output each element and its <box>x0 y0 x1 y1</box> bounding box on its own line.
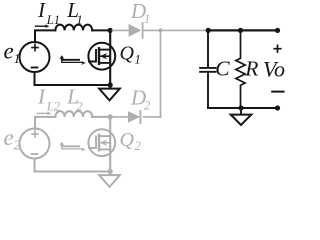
voltage source e2 <box>20 129 50 159</box>
node top right <box>275 28 280 33</box>
wire link D2 to D1 <box>160 30 162 117</box>
wire D2 cathode to link <box>144 116 161 118</box>
Q2 gate bar <box>89 137 96 149</box>
svg-text:1: 1 <box>76 13 82 27</box>
svg-text:C: C <box>215 57 230 81</box>
transistor Q1 <box>88 43 115 70</box>
svg-text:2: 2 <box>135 139 141 153</box>
ground phase 1 <box>109 85 111 89</box>
node drain junction <box>108 28 113 33</box>
gate signal arrow <box>61 58 63 63</box>
transistor Q2 <box>88 129 115 156</box>
current arrow I_L2 <box>38 112 49 114</box>
Q1 channel bar <box>98 48 100 64</box>
svg-text:1: 1 <box>135 53 141 67</box>
wire drain node 2 to D2 anode <box>113 116 129 118</box>
wire inductor to drain node <box>92 29 110 31</box>
diode D1 <box>129 24 142 37</box>
current arrow I_L1 <box>36 25 47 27</box>
Q1 source lead <box>99 62 110 64</box>
svg-text:2: 2 <box>144 99 150 113</box>
Q1 body arrow <box>100 56 110 63</box>
Q2 source lead <box>99 148 110 150</box>
svg-text:R: R <box>244 57 258 81</box>
svg-text:e: e <box>4 39 14 64</box>
wire e1 bottom to source rail <box>35 72 111 85</box>
wire inductor to drain node 2 <box>92 116 110 118</box>
Q2 drain lead <box>109 117 111 172</box>
wire e2 top to inductor <box>35 117 55 129</box>
wire output top rail <box>208 29 278 31</box>
node diode link junction <box>158 28 162 32</box>
resistor R <box>236 30 245 108</box>
svg-text:e: e <box>4 125 14 150</box>
inductor L2 <box>55 111 92 117</box>
plus sign inside e1 <box>32 45 38 51</box>
ground phase 2 <box>109 172 111 176</box>
node top middle <box>238 28 243 33</box>
plus sign inside e2 <box>32 131 38 137</box>
node source junction <box>108 82 113 87</box>
node drain junction 2 <box>108 114 113 119</box>
wire e2 bottom to source rail 2 <box>35 159 111 172</box>
voltage source e1 <box>20 42 50 72</box>
svg-text:Q: Q <box>120 129 135 151</box>
minus sign inside e1 <box>32 67 38 69</box>
ground output <box>240 108 242 115</box>
Q2 channel bar <box>98 135 100 151</box>
node top left <box>206 28 211 33</box>
wire output bottom rail <box>208 107 278 109</box>
capacitor C <box>207 30 209 67</box>
svg-text:I: I <box>37 85 46 109</box>
svg-text:2: 2 <box>76 100 82 114</box>
wire D1 cathode to output node <box>144 29 208 31</box>
node bottom right <box>275 105 280 110</box>
minus sign inside e2 <box>32 153 38 155</box>
svg-text:I: I <box>37 0 46 22</box>
wire e1 top to inductor <box>35 30 55 42</box>
gate signal arrow 2 <box>61 144 63 149</box>
svg-text:1: 1 <box>14 51 21 66</box>
minus sign output <box>272 91 283 93</box>
svg-text:Q: Q <box>120 43 135 65</box>
node bottom middle <box>238 105 243 110</box>
diode D2 <box>128 111 140 123</box>
svg-text:1: 1 <box>144 12 150 26</box>
svg-text:Vo: Vo <box>263 56 285 81</box>
svg-text:L2: L2 <box>46 100 60 114</box>
wire drain node to D1 anode <box>113 29 129 31</box>
plus sign output <box>274 45 281 52</box>
Q2 body arrow <box>100 143 110 150</box>
Q1 drain lead <box>109 30 111 85</box>
node source junction 2 <box>108 169 113 174</box>
svg-text:2: 2 <box>14 138 21 153</box>
inductor L1 <box>55 25 92 31</box>
Q1 gate bar <box>89 50 96 62</box>
